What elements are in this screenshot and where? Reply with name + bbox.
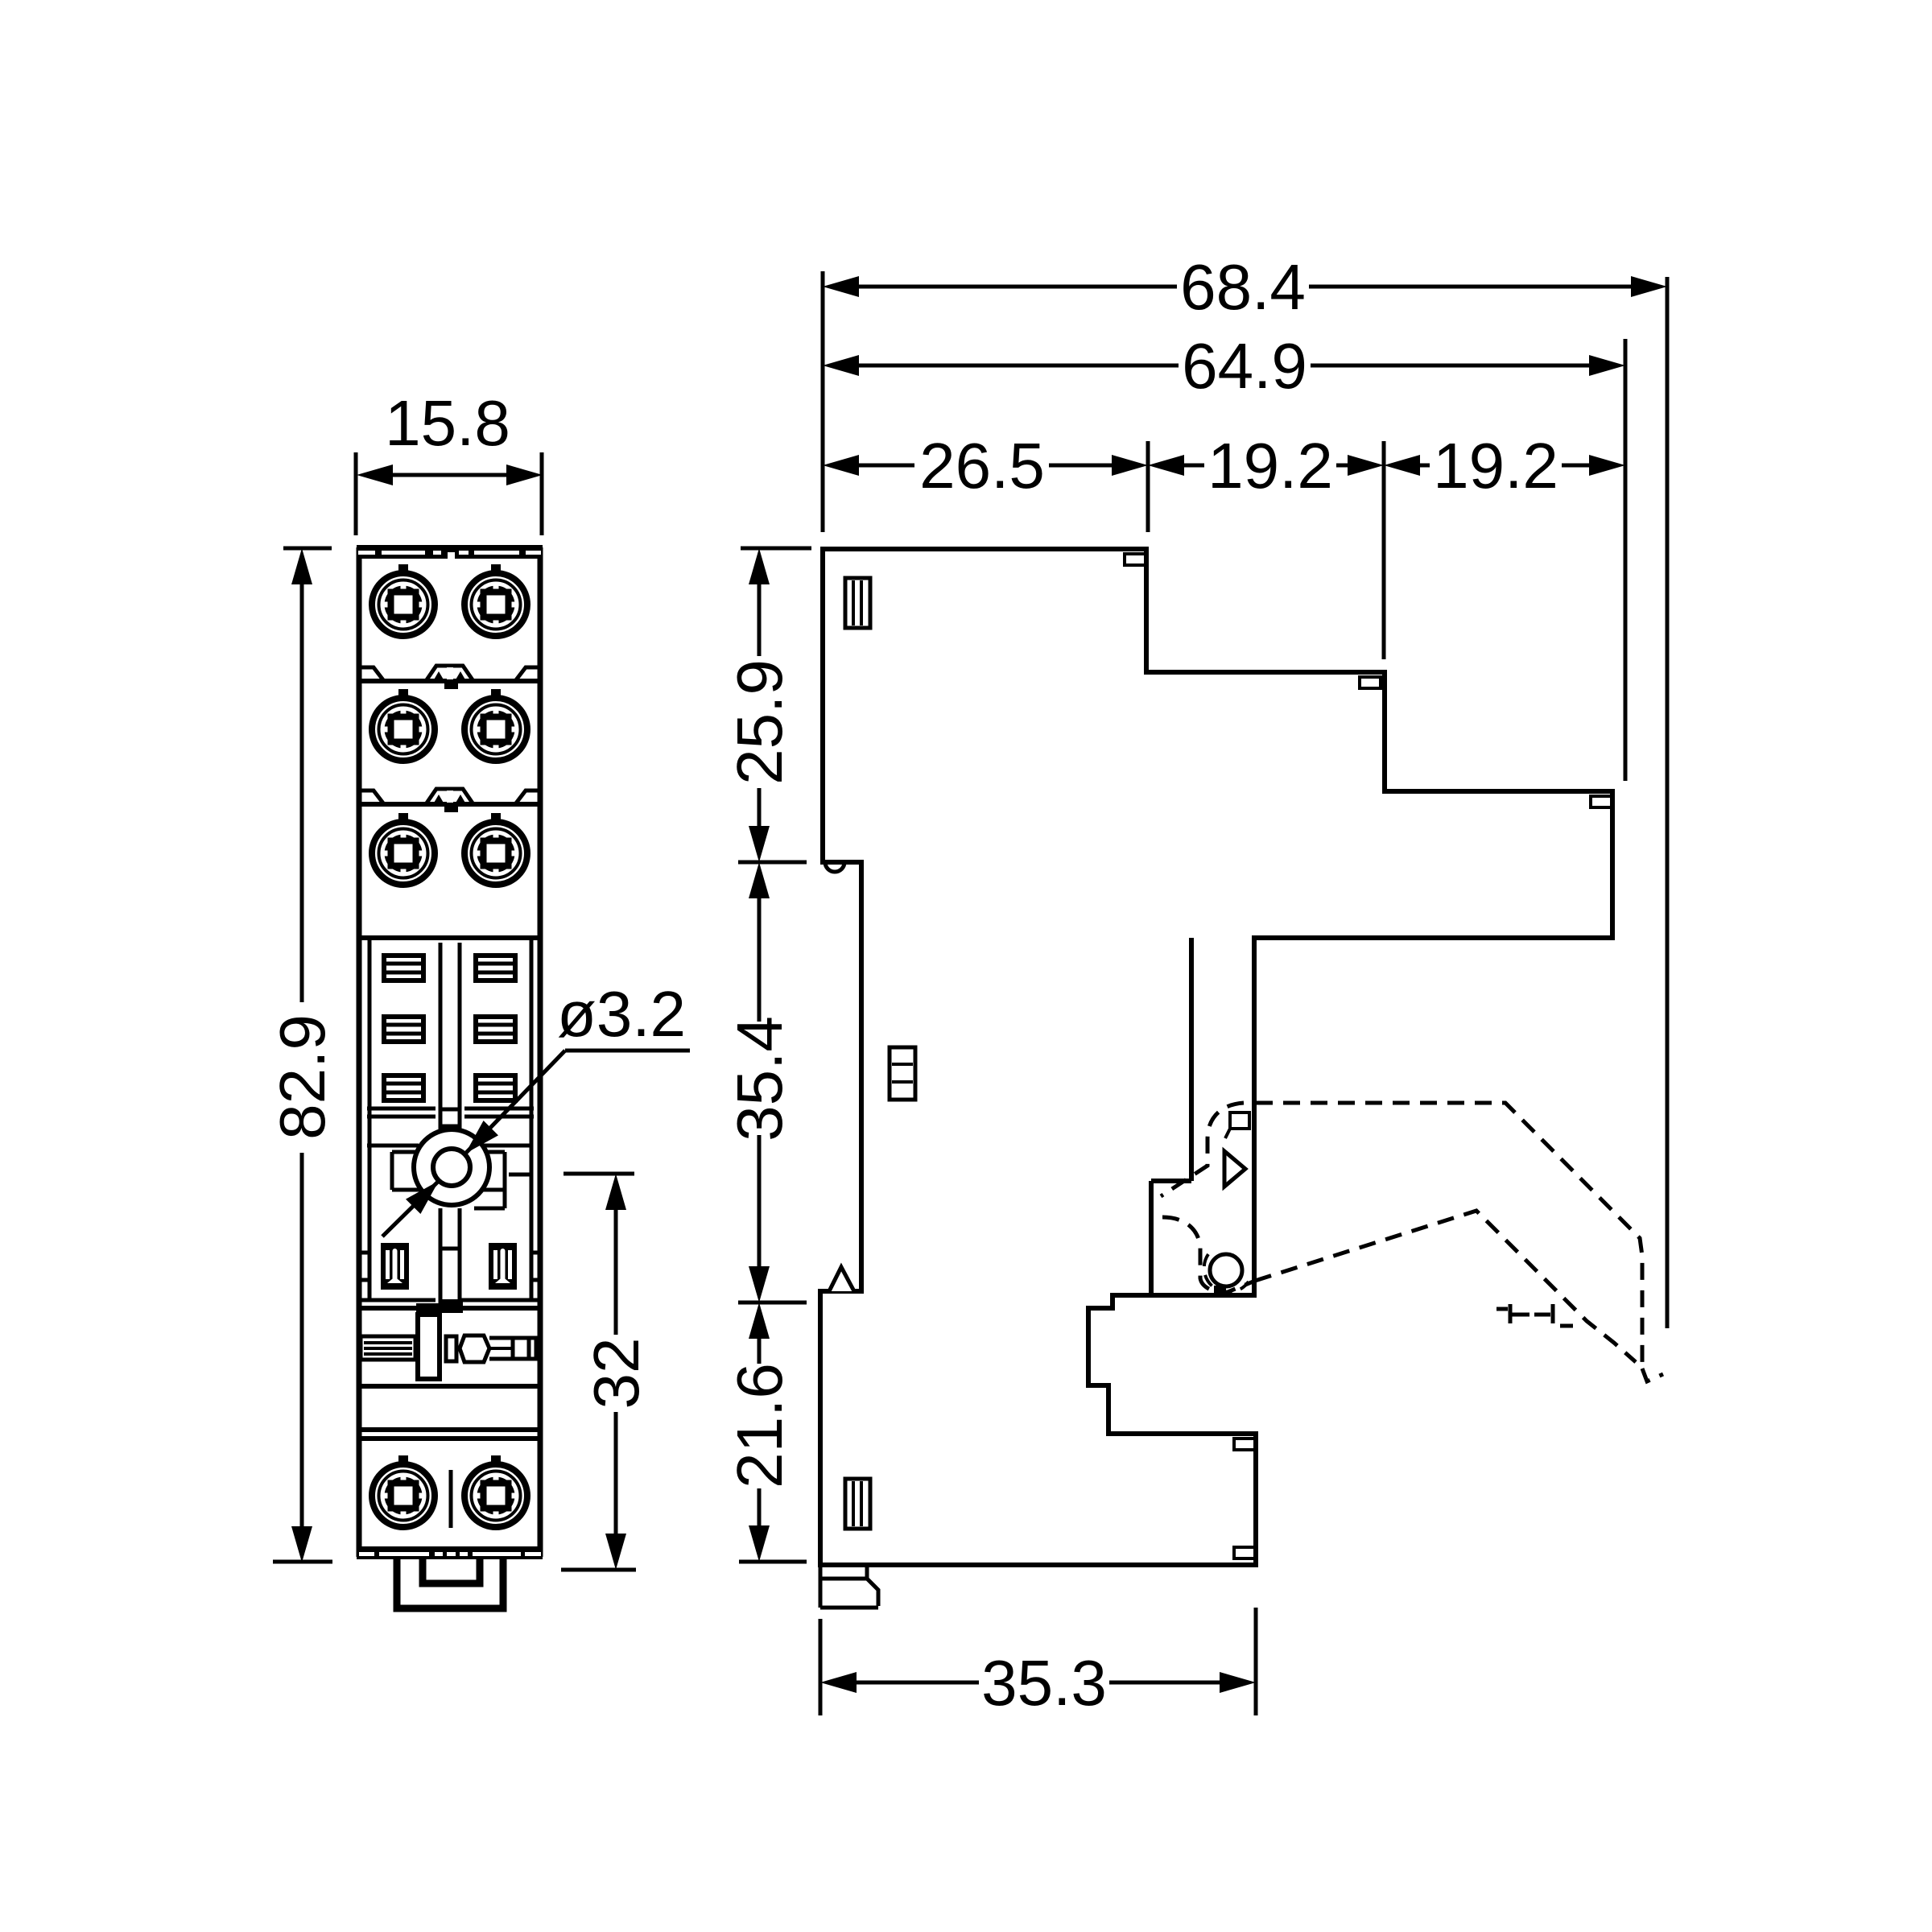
svg-text:82.9: 82.9 — [266, 1014, 338, 1140]
svg-text:ø3.2: ø3.2 — [557, 978, 686, 1050]
svg-text:25.9: 25.9 — [724, 659, 795, 785]
svg-text:35.4: 35.4 — [724, 1016, 795, 1141]
svg-text:21.6: 21.6 — [724, 1363, 795, 1488]
svg-text:15.8: 15.8 — [385, 387, 510, 459]
svg-text:68.4: 68.4 — [1180, 251, 1306, 323]
svg-text:19.2: 19.2 — [1433, 430, 1558, 502]
svg-text:26.5: 26.5 — [919, 430, 1045, 502]
svg-text:35.3: 35.3 — [981, 1647, 1107, 1719]
svg-text:19.2: 19.2 — [1207, 430, 1333, 502]
svg-text:64.9: 64.9 — [1182, 330, 1307, 402]
svg-text:32: 32 — [580, 1338, 652, 1410]
